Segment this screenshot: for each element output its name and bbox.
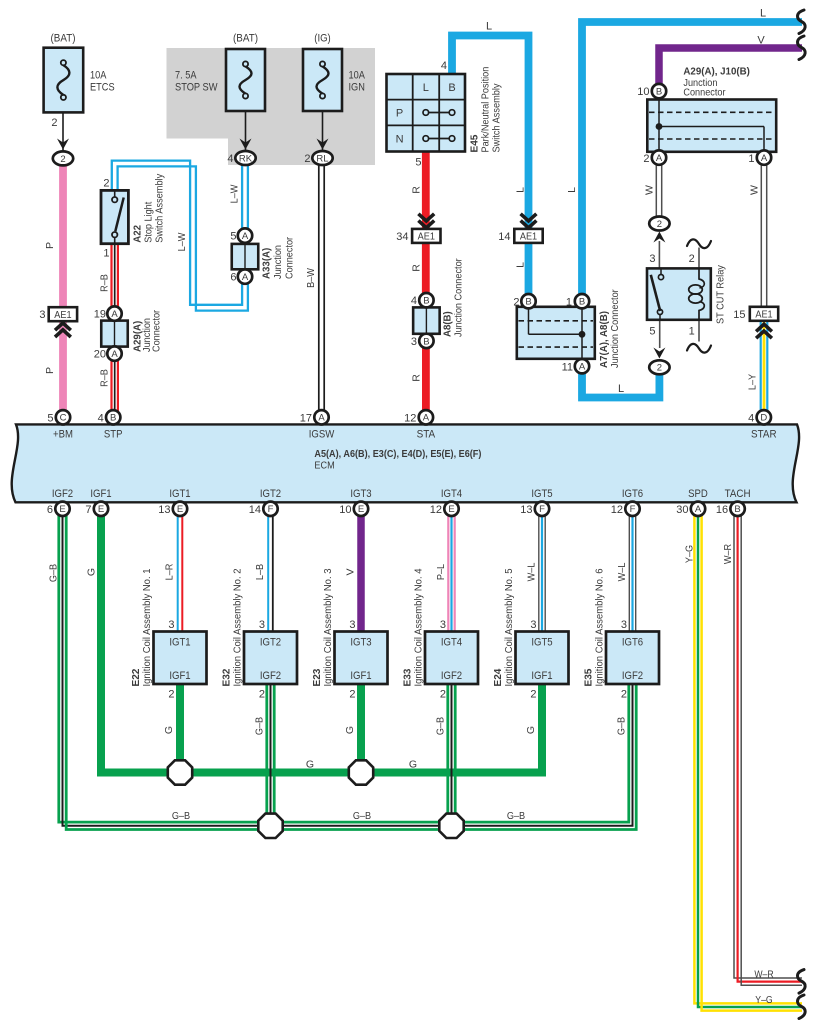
svg-text:3: 3: [649, 253, 655, 265]
svg-text:STA: STA: [417, 428, 436, 440]
svg-text:A5(A), A6(B), E3(C), E4(D), E5: A5(A), A6(B), E3(C), E4(D), E5(E), E6(F): [314, 448, 481, 460]
svg-text:17: 17: [300, 412, 312, 424]
svg-text:SPD: SPD: [688, 488, 708, 500]
svg-text:W–L: W–L: [616, 562, 628, 581]
svg-text:10: 10: [637, 86, 649, 98]
svg-text:2: 2: [349, 688, 355, 700]
svg-text:L: L: [515, 262, 527, 268]
svg-text:E: E: [177, 504, 183, 515]
svg-text:B: B: [423, 296, 429, 307]
svg-text:A: A: [656, 153, 663, 164]
svg-text:L: L: [566, 187, 578, 193]
svg-text:10A: 10A: [90, 70, 107, 82]
svg-text:G: G: [163, 726, 175, 734]
svg-text:Ignition Coil Assembly No. 3: Ignition Coil Assembly No. 3: [323, 568, 334, 686]
svg-text:G: G: [344, 726, 356, 734]
svg-text:G: G: [86, 568, 98, 576]
svg-text:G–B: G–B: [507, 810, 525, 822]
svg-text:1: 1: [748, 153, 754, 165]
svg-text:STOP SW: STOP SW: [175, 82, 218, 94]
svg-text:N: N: [396, 133, 404, 145]
svg-text:G: G: [525, 726, 537, 734]
svg-text:6: 6: [47, 504, 53, 516]
svg-text:Ignition Coil Assembly No. 2: Ignition Coil Assembly No. 2: [233, 568, 244, 686]
svg-text:2: 2: [657, 363, 662, 374]
svg-text:B: B: [525, 297, 531, 308]
svg-text:2: 2: [513, 296, 519, 308]
svg-text:12: 12: [404, 412, 416, 424]
svg-text:IGT2: IGT2: [260, 488, 281, 500]
svg-text:IGT6: IGT6: [622, 488, 643, 500]
svg-text:2: 2: [643, 153, 649, 165]
svg-text:A: A: [111, 349, 118, 360]
svg-text:4: 4: [227, 153, 233, 165]
svg-text:B–W: B–W: [305, 268, 317, 288]
svg-text:IGT3: IGT3: [350, 488, 371, 500]
svg-text:P: P: [44, 242, 56, 249]
svg-text:AE1: AE1: [418, 231, 435, 243]
svg-text:B: B: [656, 87, 662, 98]
svg-text:Ignition Coil Assembly No. 1: Ignition Coil Assembly No. 1: [142, 568, 153, 686]
svg-text:A: A: [423, 413, 430, 424]
svg-text:ECM: ECM: [314, 460, 334, 472]
svg-text:3: 3: [530, 619, 536, 631]
svg-text:A: A: [318, 413, 325, 424]
svg-text:STAR: STAR: [751, 428, 777, 440]
svg-text:(BAT): (BAT): [51, 33, 76, 45]
svg-text:G–B: G–B: [353, 810, 371, 822]
svg-text:3: 3: [39, 309, 45, 321]
svg-text:IGT6: IGT6: [622, 636, 643, 648]
svg-text:IGSW: IGSW: [309, 428, 335, 440]
svg-text:L–B: L–B: [254, 564, 266, 580]
svg-text:7: 7: [85, 504, 91, 516]
svg-text:P–L: P–L: [435, 564, 447, 580]
svg-text:G–B: G–B: [616, 717, 628, 735]
svg-text:IGF1: IGF1: [90, 488, 111, 500]
svg-text:STP: STP: [104, 428, 123, 440]
svg-text:A33(A): A33(A): [261, 248, 273, 279]
svg-text:Ignition Coil Assembly No. 6: Ignition Coil Assembly No. 6: [595, 568, 606, 686]
svg-text:Ignition Coil Assembly No. 4: Ignition Coil Assembly No. 4: [414, 568, 425, 686]
svg-text:A: A: [111, 309, 118, 320]
svg-text:4: 4: [98, 412, 104, 424]
svg-text:34: 34: [396, 231, 408, 243]
svg-text:5: 5: [415, 157, 421, 169]
svg-text:4: 4: [441, 60, 447, 72]
svg-text:C: C: [60, 413, 67, 424]
svg-text:30: 30: [676, 504, 688, 516]
svg-text:R: R: [411, 186, 423, 194]
svg-text:RK: RK: [239, 153, 253, 164]
svg-text:Connector: Connector: [151, 309, 163, 352]
svg-text:Y–G: Y–G: [755, 995, 773, 1006]
svg-text:6: 6: [230, 272, 236, 284]
svg-text:W: W: [749, 185, 761, 195]
svg-text:L–Y: L–Y: [747, 374, 759, 390]
svg-text:3: 3: [621, 619, 627, 631]
svg-text:A: A: [242, 231, 249, 242]
svg-text:Y–G: Y–G: [684, 545, 696, 563]
svg-text:L–W: L–W: [229, 185, 241, 204]
svg-text:E: E: [358, 504, 364, 515]
svg-text:Connector: Connector: [683, 87, 726, 99]
svg-text:E33: E33: [402, 668, 414, 686]
svg-text:20: 20: [94, 349, 106, 361]
svg-text:P: P: [44, 367, 56, 374]
svg-text:ST CUT Relay: ST CUT Relay: [715, 264, 727, 324]
svg-text:4: 4: [411, 295, 417, 307]
svg-text:IGF1: IGF1: [169, 670, 190, 682]
svg-text:F: F: [268, 504, 274, 515]
svg-text:L: L: [760, 8, 766, 20]
svg-text:12: 12: [611, 504, 623, 516]
svg-text:L–W: L–W: [176, 233, 188, 252]
svg-text:IGF1: IGF1: [531, 670, 552, 682]
svg-text:Switch Assembly: Switch Assembly: [491, 83, 503, 153]
svg-text:IGF2: IGF2: [260, 670, 281, 682]
svg-text:5: 5: [649, 325, 655, 337]
svg-text:3: 3: [411, 336, 417, 348]
svg-text:E24: E24: [492, 668, 504, 686]
svg-text:G: G: [306, 759, 314, 771]
svg-text:W–L: W–L: [526, 562, 538, 581]
svg-text:3: 3: [168, 619, 174, 631]
svg-text:IGF1: IGF1: [350, 670, 371, 682]
svg-text:4: 4: [748, 412, 754, 424]
svg-text:10A: 10A: [349, 70, 366, 82]
svg-text:2: 2: [530, 688, 536, 700]
svg-text:Junction: Junction: [272, 245, 284, 279]
svg-text:E22: E22: [130, 668, 142, 686]
svg-text:F: F: [630, 504, 636, 515]
svg-text:IGT4: IGT4: [441, 488, 462, 500]
svg-text:AE1: AE1: [520, 231, 537, 243]
svg-text:Connector: Connector: [284, 236, 296, 279]
svg-text:RL: RL: [316, 153, 328, 164]
svg-text:14: 14: [498, 231, 510, 243]
svg-text:E: E: [98, 504, 104, 515]
svg-text:B: B: [110, 413, 116, 424]
svg-text:IGT1: IGT1: [169, 636, 190, 648]
svg-text:2: 2: [304, 153, 310, 165]
svg-text:IGT4: IGT4: [441, 636, 462, 648]
svg-text:(IG): (IG): [314, 33, 331, 45]
svg-text:2: 2: [689, 253, 695, 265]
svg-text:L: L: [515, 187, 527, 193]
svg-text:B: B: [579, 297, 585, 308]
svg-text:1: 1: [103, 248, 109, 260]
svg-text:1: 1: [689, 325, 695, 337]
svg-text:IGF2: IGF2: [52, 488, 73, 500]
svg-text:2: 2: [168, 688, 174, 700]
svg-text:ETCS: ETCS: [90, 82, 115, 94]
svg-text:2: 2: [60, 154, 65, 165]
svg-text:3: 3: [259, 619, 265, 631]
svg-text:19: 19: [94, 309, 106, 321]
svg-text:F: F: [539, 504, 545, 515]
svg-text:3: 3: [440, 619, 446, 631]
svg-text:G: G: [409, 759, 417, 771]
svg-text:R: R: [411, 264, 423, 272]
svg-text:10: 10: [339, 504, 351, 516]
svg-text:D: D: [760, 413, 767, 424]
svg-text:5: 5: [230, 231, 236, 243]
svg-text:P: P: [396, 107, 403, 119]
svg-text:+BM: +BM: [53, 428, 73, 440]
svg-text:L–R: L–R: [164, 563, 176, 580]
svg-text:E23: E23: [311, 668, 323, 686]
svg-text:IGF2: IGF2: [622, 670, 643, 682]
svg-text:7. 5A: 7. 5A: [175, 70, 197, 82]
svg-text:IGT1: IGT1: [169, 488, 190, 500]
svg-text:IGN: IGN: [349, 82, 365, 94]
svg-text:A: A: [761, 153, 768, 164]
svg-text:E32: E32: [221, 668, 233, 686]
svg-text:G–B: G–B: [172, 810, 190, 822]
svg-text:AE1: AE1: [54, 309, 71, 321]
svg-text:2: 2: [103, 178, 109, 190]
svg-text:W–R: W–R: [722, 543, 734, 564]
svg-text:(BAT): (BAT): [233, 33, 258, 45]
svg-text:E: E: [59, 504, 65, 515]
svg-text:Junction Connector: Junction Connector: [453, 258, 465, 337]
svg-text:E: E: [448, 504, 454, 515]
svg-text:B: B: [423, 336, 429, 347]
svg-text:13: 13: [158, 504, 170, 516]
svg-text:L: L: [618, 383, 624, 395]
svg-text:IGF2: IGF2: [441, 670, 462, 682]
svg-text:2: 2: [440, 688, 446, 700]
svg-text:R: R: [411, 374, 423, 382]
svg-text:W: W: [644, 185, 656, 195]
svg-text:L: L: [486, 21, 492, 33]
svg-text:A: A: [242, 272, 249, 283]
svg-text:IGT3: IGT3: [350, 636, 371, 648]
svg-text:V: V: [345, 568, 357, 575]
svg-text:Junction Connector: Junction Connector: [609, 289, 621, 368]
svg-text:IGT5: IGT5: [531, 636, 552, 648]
svg-text:A: A: [695, 504, 702, 515]
svg-text:G–B: G–B: [435, 717, 447, 735]
svg-text:B: B: [448, 82, 455, 94]
svg-text:G–B: G–B: [254, 717, 266, 735]
svg-text:A29(A), J10(B): A29(A), J10(B): [683, 66, 750, 78]
svg-text:12: 12: [430, 504, 442, 516]
svg-text:5: 5: [47, 412, 53, 424]
svg-text:IGT5: IGT5: [531, 488, 552, 500]
svg-text:B: B: [734, 504, 740, 515]
svg-text:E35: E35: [583, 668, 595, 686]
svg-text:TACH: TACH: [725, 488, 751, 500]
svg-text:2: 2: [51, 117, 57, 129]
svg-text:15: 15: [733, 309, 745, 321]
svg-text:Switch Assembly: Switch Assembly: [154, 173, 166, 243]
svg-text:1: 1: [566, 296, 572, 308]
svg-text:R–B: R–B: [99, 274, 111, 292]
svg-text:14: 14: [249, 504, 261, 516]
svg-text:R–B: R–B: [99, 369, 111, 387]
svg-text:2: 2: [657, 219, 662, 230]
svg-text:W–R: W–R: [754, 970, 773, 981]
svg-text:2: 2: [259, 688, 265, 700]
svg-text:IGT2: IGT2: [260, 636, 281, 648]
svg-text:Ignition Coil Assembly No. 5: Ignition Coil Assembly No. 5: [504, 568, 515, 686]
svg-text:L: L: [423, 82, 429, 94]
svg-text:3: 3: [349, 619, 355, 631]
svg-text:2: 2: [621, 688, 627, 700]
svg-text:16: 16: [716, 504, 728, 516]
svg-text:A: A: [579, 362, 586, 373]
svg-text:13: 13: [520, 504, 532, 516]
svg-text:V: V: [757, 35, 765, 47]
svg-text:AE1: AE1: [755, 309, 772, 321]
svg-text:11: 11: [562, 362, 573, 374]
svg-text:G–B: G–B: [48, 564, 60, 582]
